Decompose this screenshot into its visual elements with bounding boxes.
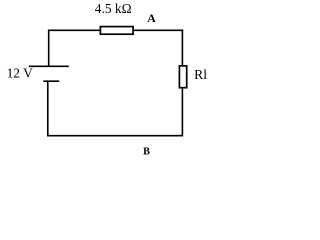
resistor R1 (vertical box on right wire) [179, 66, 186, 88]
svg-text:B: B [143, 147, 150, 158]
svg-text:Rl: Rl [194, 67, 207, 82]
svg-text:4.5 kΩ: 4.5 kΩ [95, 1, 132, 16]
wire: left vertical from battery negative plate down to bottom-left corner [47, 81, 49, 136]
wire: right vertical from node A corner down to bottom-right corner [181, 30, 183, 137]
resistor 4.5 kOhm (horizontal box on top wire) [100, 27, 133, 35]
battery negative plate (short line) [43, 80, 59, 82]
battery positive plate (long line) [29, 65, 69, 67]
wire: top horizontal from node above battery to top-right corner [48, 29, 183, 31]
wire: bottom horizontal from below battery to bottom-right corner [47, 135, 183, 137]
svg-text:12 V: 12 V [7, 66, 33, 81]
svg-text:A: A [147, 11, 156, 25]
wire: left vertical from top-left corner down to battery positive plate [48, 30, 50, 66]
